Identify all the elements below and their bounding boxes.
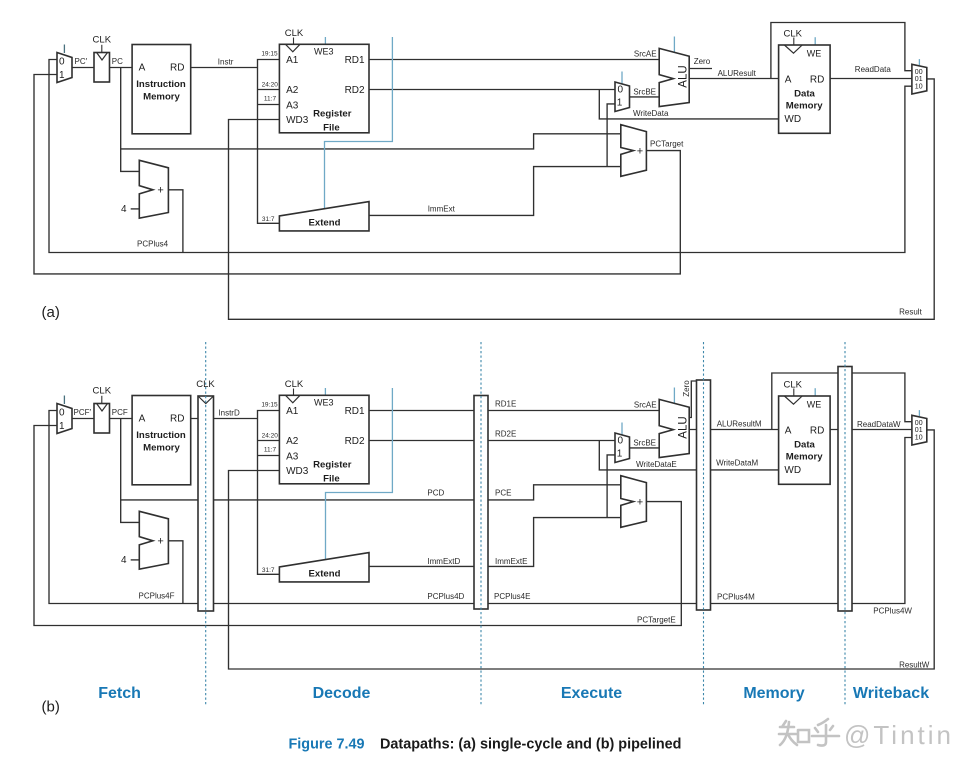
- svg-text:ALU: ALU: [678, 416, 690, 438]
- wire PCTargetE feedback (b): adder out, down, left run, up to mux1: [34, 426, 681, 626]
- clock wedge of Fetch-Decode register (b): [198, 396, 214, 404]
- svg-text:10: 10: [915, 83, 923, 90]
- svg-text:ALUResultM: ALUResultM: [717, 419, 762, 428]
- wire PCF' (b): [72, 418, 94, 420]
- svg-text:+: +: [157, 536, 163, 548]
- control tick ResultSrc mux (a): [918, 59, 920, 65]
- svg-text:ImmExtE: ImmExtE: [495, 557, 527, 566]
- wire ImmExt branch to SrcB mux 1 (a): [607, 104, 615, 167]
- wire RD2 to SrcB mux (a): [369, 89, 615, 91]
- svg-text:Extend: Extend: [309, 568, 341, 579]
- wire PCPlus4F adder output drop (b): [168, 541, 183, 604]
- svg-text:RD2E: RD2E: [495, 430, 516, 439]
- svg-text:1: 1: [617, 449, 623, 460]
- wire ZeroE up into pipeline register (b): [689, 381, 696, 418]
- svg-text:WD: WD: [784, 114, 801, 125]
- svg-text:01: 01: [915, 76, 923, 83]
- svg-text:WE: WE: [807, 49, 822, 59]
- svg-text:CLK: CLK: [196, 379, 215, 390]
- svg-text:Memory: Memory: [143, 442, 180, 453]
- wire PCD PCE to PCTarget adder with jog (b): [121, 485, 621, 500]
- svg-text:4: 4: [121, 555, 127, 566]
- svg-text:00: 00: [915, 420, 923, 427]
- svg-text:WD: WD: [784, 465, 801, 476]
- svg-text:Instruction: Instruction: [136, 79, 186, 90]
- svg-text:PCPlus4: PCPlus4: [137, 240, 169, 249]
- extend unit (a): [279, 202, 369, 231]
- wire PCPlus4 bus (b): mux0 feedback, bottom run through pipeline regs, riser to result-mux 10: [49, 411, 912, 604]
- control tick RegWrite WE3 (a): [324, 37, 326, 44]
- wire RD1 SrcAE (a): [369, 59, 659, 61]
- svg-text:A1: A1: [286, 55, 299, 66]
- wire PCPlus4 bus (a): mux0 feedback, bottom run, riser to result-mux 10: [49, 60, 912, 253]
- svg-text:+: +: [637, 145, 643, 157]
- svg-text:Figure 7.49: Figure 7.49: [289, 737, 365, 753]
- svg-text:24:20: 24:20: [262, 433, 279, 440]
- clock wedge of data memory (a): [784, 45, 802, 53]
- instruction memory box (a): [132, 45, 191, 134]
- wire WriteDataE WriteDataM (b): [599, 441, 778, 470]
- wire CLK tick of register file (b): [293, 389, 295, 396]
- svg-text:Decode: Decode: [313, 685, 371, 702]
- svg-text:CLK: CLK: [783, 379, 802, 390]
- clock wedge of register file (a): [286, 44, 301, 52]
- svg-text:1: 1: [59, 70, 65, 81]
- svg-text:SrcAE: SrcAE: [634, 50, 657, 59]
- control tick PCSrc mux (a): [63, 45, 65, 54]
- wire ResultW feedback to WD3 (b): [229, 430, 935, 669]
- svg-text:RD1: RD1: [345, 406, 365, 417]
- svg-text:ImmExt: ImmExt: [428, 204, 456, 213]
- svg-text:Execute: Execute: [561, 685, 622, 702]
- svg-text:WriteDataE: WriteDataE: [636, 460, 677, 469]
- svg-text:(b): (b): [42, 699, 60, 716]
- svg-text:A: A: [139, 62, 146, 73]
- svg-text:WE: WE: [807, 400, 822, 410]
- svg-text:Data: Data: [794, 440, 815, 451]
- control tick ALUSrc mux (b): [621, 423, 623, 436]
- mux ALUSrc (a): [615, 82, 630, 112]
- svg-text:Memory: Memory: [743, 685, 804, 702]
- svg-text:A2: A2: [286, 436, 299, 447]
- svg-text:A2: A2: [286, 85, 299, 96]
- svg-text:A3: A3: [286, 451, 299, 462]
- wire ImmExtD ImmExtE with jog to adder (b): [369, 518, 621, 567]
- svg-text:10: 10: [915, 434, 923, 441]
- svg-text:WE3: WE3: [314, 47, 334, 57]
- svg-text:CLK: CLK: [93, 385, 112, 396]
- wire ALUResult branch over Data Memory to result-mux 00 (b): [772, 373, 912, 430]
- svg-text:CLK: CLK: [285, 28, 304, 39]
- wire PCPlus4 adder output drop (a): [168, 190, 183, 253]
- clock wedge of PC register (a): [97, 53, 108, 61]
- svg-text:4: 4: [121, 204, 127, 215]
- svg-text:ImmExtD: ImmExtD: [427, 557, 460, 566]
- svg-text:Register: Register: [313, 460, 352, 471]
- wire constant 4 stub (b): [131, 559, 140, 561]
- mux ResultSrc (a): [912, 64, 927, 94]
- wire InstrD[19:15] to A1 (b): [258, 411, 280, 419]
- svg-text:Memory: Memory: [786, 452, 823, 463]
- svg-text:A1: A1: [286, 406, 299, 417]
- svg-text:WD3: WD3: [286, 115, 309, 126]
- svg-text:WE3: WE3: [314, 398, 334, 408]
- svg-text:00: 00: [915, 69, 923, 76]
- svg-text:+: +: [637, 496, 643, 508]
- adder PCPlus4 (a): [139, 160, 168, 218]
- svg-text:Writeback: Writeback: [853, 685, 929, 702]
- control tick RegWrite WE3 (b): [324, 388, 326, 395]
- svg-text:RD: RD: [170, 413, 184, 424]
- svg-text:ALU: ALU: [678, 65, 690, 87]
- svg-text:RD2: RD2: [345, 85, 365, 96]
- wire constant 4 stub (a): [131, 208, 140, 210]
- control tick ResultSrc mux (b): [918, 410, 920, 416]
- clock wedge of PC register (b): [97, 404, 108, 412]
- wire PC' (a): [72, 67, 94, 69]
- stage separator dotted line Execute/Memory (b): [703, 342, 705, 705]
- wire PC to Instruction Memory (a): [110, 67, 133, 69]
- svg-text:11:7: 11:7: [264, 95, 277, 102]
- wire Instr[11:7] to A3 (a): [258, 104, 280, 106]
- svg-text:WriteDataM: WriteDataM: [716, 459, 758, 468]
- control tick ALUControl (b): [673, 388, 675, 404]
- svg-text:WriteData: WriteData: [633, 109, 669, 118]
- wire RD2E to SrcB mux (b): [369, 440, 615, 442]
- pipeline register Execute-Memory (b): [697, 380, 711, 610]
- pipeline register Decode-Execute (b): [474, 396, 488, 610]
- control tick ALUControl (a): [673, 37, 675, 53]
- svg-text:31:7: 31:7: [262, 216, 275, 223]
- svg-text:ReadDataW: ReadDataW: [857, 420, 901, 429]
- wire SrcBE (b): [630, 447, 660, 449]
- svg-text:Memory: Memory: [786, 101, 823, 112]
- wire PCF branch down to PCPlus4 adder (b): [121, 419, 140, 523]
- control ImmSrc line into Extend (b): [326, 388, 393, 560]
- wire Instr (a): [191, 67, 258, 69]
- svg-text:Memory: Memory: [143, 91, 180, 102]
- register PC (a): [94, 53, 110, 83]
- svg-text:SrcAE: SrcAE: [634, 401, 657, 410]
- svg-text:PCTarget: PCTarget: [650, 140, 684, 149]
- svg-text:(a): (a): [42, 304, 60, 321]
- extend unit (b): [279, 553, 369, 582]
- svg-text:Fetch: Fetch: [98, 685, 141, 702]
- pipeline register Fetch-Decode (b): [198, 396, 214, 611]
- svg-text:File: File: [323, 473, 340, 484]
- instruction memory box (b): [132, 396, 191, 485]
- stage separator dotted line Memory/Writeback (b): [844, 342, 846, 705]
- stage separator dotted line Decode/Execute (b): [480, 342, 482, 705]
- wire ALUResult branch over Data Memory to result-mux 00 (a): [771, 23, 912, 79]
- svg-text:0: 0: [618, 85, 624, 96]
- watermark hanzi zhi: [779, 721, 809, 745]
- wire PC branch down to PCPlus4 adder (a): [121, 68, 140, 172]
- wire InstrD (b): [191, 418, 258, 420]
- svg-text:Datapaths: (a) single-cycle an: Datapaths: (a) single-cycle and (b) pipe…: [380, 737, 681, 753]
- pipeline register Memory-Writeback (b): [838, 367, 852, 612]
- svg-text:PC: PC: [112, 57, 123, 66]
- svg-text:ALUResult: ALUResult: [718, 69, 757, 78]
- svg-text:RD: RD: [170, 62, 184, 73]
- register file box (a): [279, 44, 369, 133]
- wire Instr[19:15] to A1 (a): [258, 60, 280, 68]
- wire CLK tick of PC register (a): [101, 45, 103, 53]
- svg-text:19:15: 19:15: [261, 50, 278, 57]
- svg-text:31:7: 31:7: [262, 567, 275, 574]
- mux ResultSrc (b): [912, 415, 927, 445]
- svg-text:0: 0: [59, 56, 65, 67]
- wire Zero stub (a): [689, 68, 712, 70]
- wire PCF to Instruction Memory (b): [110, 418, 133, 420]
- wire CLK tick of Data Memory (a): [793, 38, 795, 46]
- mux PCSrc (b): [57, 404, 72, 434]
- control tick ALUSrc mux (a): [621, 72, 623, 85]
- control tick PCSrc mux (b): [63, 396, 65, 405]
- data memory box (b): [779, 396, 831, 484]
- svg-text:1: 1: [617, 98, 623, 109]
- register file box (b): [279, 395, 369, 484]
- svg-text:File: File: [323, 122, 340, 133]
- ALU (a): [659, 48, 689, 106]
- svg-text:CLK: CLK: [285, 379, 304, 390]
- wire InstrD[11:7] to A3 (b): [258, 455, 280, 457]
- control tick MemWrite WE (a): [814, 37, 816, 45]
- wire WriteData (a): [599, 90, 778, 119]
- wire CLK tick of Register File (a): [293, 38, 295, 45]
- svg-text:0: 0: [59, 407, 65, 418]
- wire InstrD[24:20] to A2 (b): [258, 440, 280, 442]
- svg-text:Result: Result: [899, 308, 922, 317]
- svg-text:RD1: RD1: [345, 55, 365, 66]
- svg-text:RD1E: RD1E: [495, 400, 516, 409]
- wire ALUResultM to Data Memory (b): [689, 429, 778, 431]
- wire CLK tick of PC register (b): [101, 396, 103, 404]
- wire PCTarget feedback (a): adder out, down, left run, up to mux1: [34, 75, 680, 274]
- svg-text:PC′: PC′: [75, 57, 88, 66]
- svg-text:+: +: [157, 185, 163, 197]
- control tick MemWrite WE (b): [814, 388, 816, 396]
- svg-text:PCF′: PCF′: [74, 408, 92, 417]
- wire Result feedback to WD3 (a): [229, 79, 935, 319]
- mux PCSrc (a): [57, 53, 72, 83]
- svg-text:A: A: [139, 413, 146, 424]
- wire RD1E SrcAE (b): [369, 410, 659, 412]
- svg-text:01: 01: [915, 427, 923, 434]
- svg-text:PCPlus4W: PCPlus4W: [873, 607, 912, 616]
- svg-text:InstrD: InstrD: [218, 408, 240, 417]
- svg-text:SrcBE: SrcBE: [633, 88, 656, 97]
- adder PCTarget (a): [621, 125, 647, 177]
- stage separator dotted line Fetch/Decode (b): [205, 342, 207, 705]
- wire ImmExt with jog to adder (a): [369, 167, 621, 216]
- adder PCTargetE (b): [621, 476, 647, 528]
- svg-text:PCE: PCE: [495, 489, 511, 498]
- svg-text:Extend: Extend: [309, 217, 341, 228]
- wire PC to PCTarget adder with jog (a): [121, 134, 621, 149]
- svg-text:RD: RD: [810, 74, 824, 85]
- svg-text:WD3: WD3: [286, 466, 309, 477]
- svg-text:PCF: PCF: [112, 408, 128, 417]
- svg-text:Data: Data: [794, 89, 815, 100]
- svg-text:A: A: [785, 74, 792, 85]
- wire SrcBE (a): [630, 96, 660, 98]
- svg-text:Zero: Zero: [694, 57, 711, 66]
- svg-text:RD2: RD2: [345, 436, 365, 447]
- svg-text:24:20: 24:20: [262, 82, 279, 89]
- svg-text:@Tintin: @Tintin: [844, 720, 954, 750]
- ALU (b): [659, 399, 689, 457]
- data memory box (a): [779, 45, 831, 133]
- svg-text:PCPlus4D: PCPlus4D: [427, 592, 464, 601]
- svg-text:PCPlus4F: PCPlus4F: [139, 592, 175, 601]
- wire ReadDataW (b): [830, 429, 912, 431]
- adder PCPlus4F (b): [139, 511, 168, 569]
- svg-text:PCPlus4E: PCPlus4E: [494, 592, 530, 601]
- svg-text:PCTargetE: PCTargetE: [637, 616, 676, 625]
- svg-text:PCPlus4M: PCPlus4M: [717, 593, 755, 602]
- svg-text:Zero: Zero: [682, 380, 691, 397]
- svg-text:A: A: [785, 425, 792, 436]
- svg-text:0: 0: [618, 436, 624, 447]
- svg-text:ReadData: ReadData: [855, 65, 892, 74]
- svg-text:Instruction: Instruction: [136, 430, 186, 441]
- svg-text:ResultW: ResultW: [899, 660, 930, 669]
- svg-text:11:7: 11:7: [264, 446, 277, 453]
- register PC (b): [94, 404, 110, 434]
- clock wedge of register file (b): [286, 395, 301, 403]
- svg-text:RD: RD: [810, 425, 824, 436]
- wire CLK tick of data memory (b): [793, 389, 795, 397]
- watermark hanzi hu: [812, 719, 839, 746]
- wire InstrD[31:7] down to Extend (b): [258, 419, 280, 575]
- svg-text:CLK: CLK: [783, 28, 802, 39]
- wire ReadData (a): [830, 78, 912, 80]
- wire ImmExtE branch to SrcB mux 1 (b): [607, 455, 615, 518]
- svg-text:A3: A3: [286, 100, 299, 111]
- wire Instr[24:20] to A2 (a): [258, 89, 280, 91]
- svg-text:SrcBE: SrcBE: [633, 439, 656, 448]
- wire ALUResult to Data Memory (a): [689, 78, 778, 80]
- control ImmSrc line into Extend (a): [325, 37, 393, 209]
- svg-text:1: 1: [59, 421, 65, 432]
- wire Instr[31:7] down to Extend (a): [258, 68, 280, 224]
- clock wedge of data memory (b): [784, 396, 802, 404]
- svg-text:19:15: 19:15: [261, 401, 278, 408]
- svg-text:Register: Register: [313, 109, 352, 120]
- mux ALUSrc (b): [615, 433, 630, 463]
- svg-text:CLK: CLK: [93, 34, 112, 45]
- svg-text:Instr: Instr: [218, 57, 234, 66]
- svg-text:PCD: PCD: [427, 489, 444, 498]
